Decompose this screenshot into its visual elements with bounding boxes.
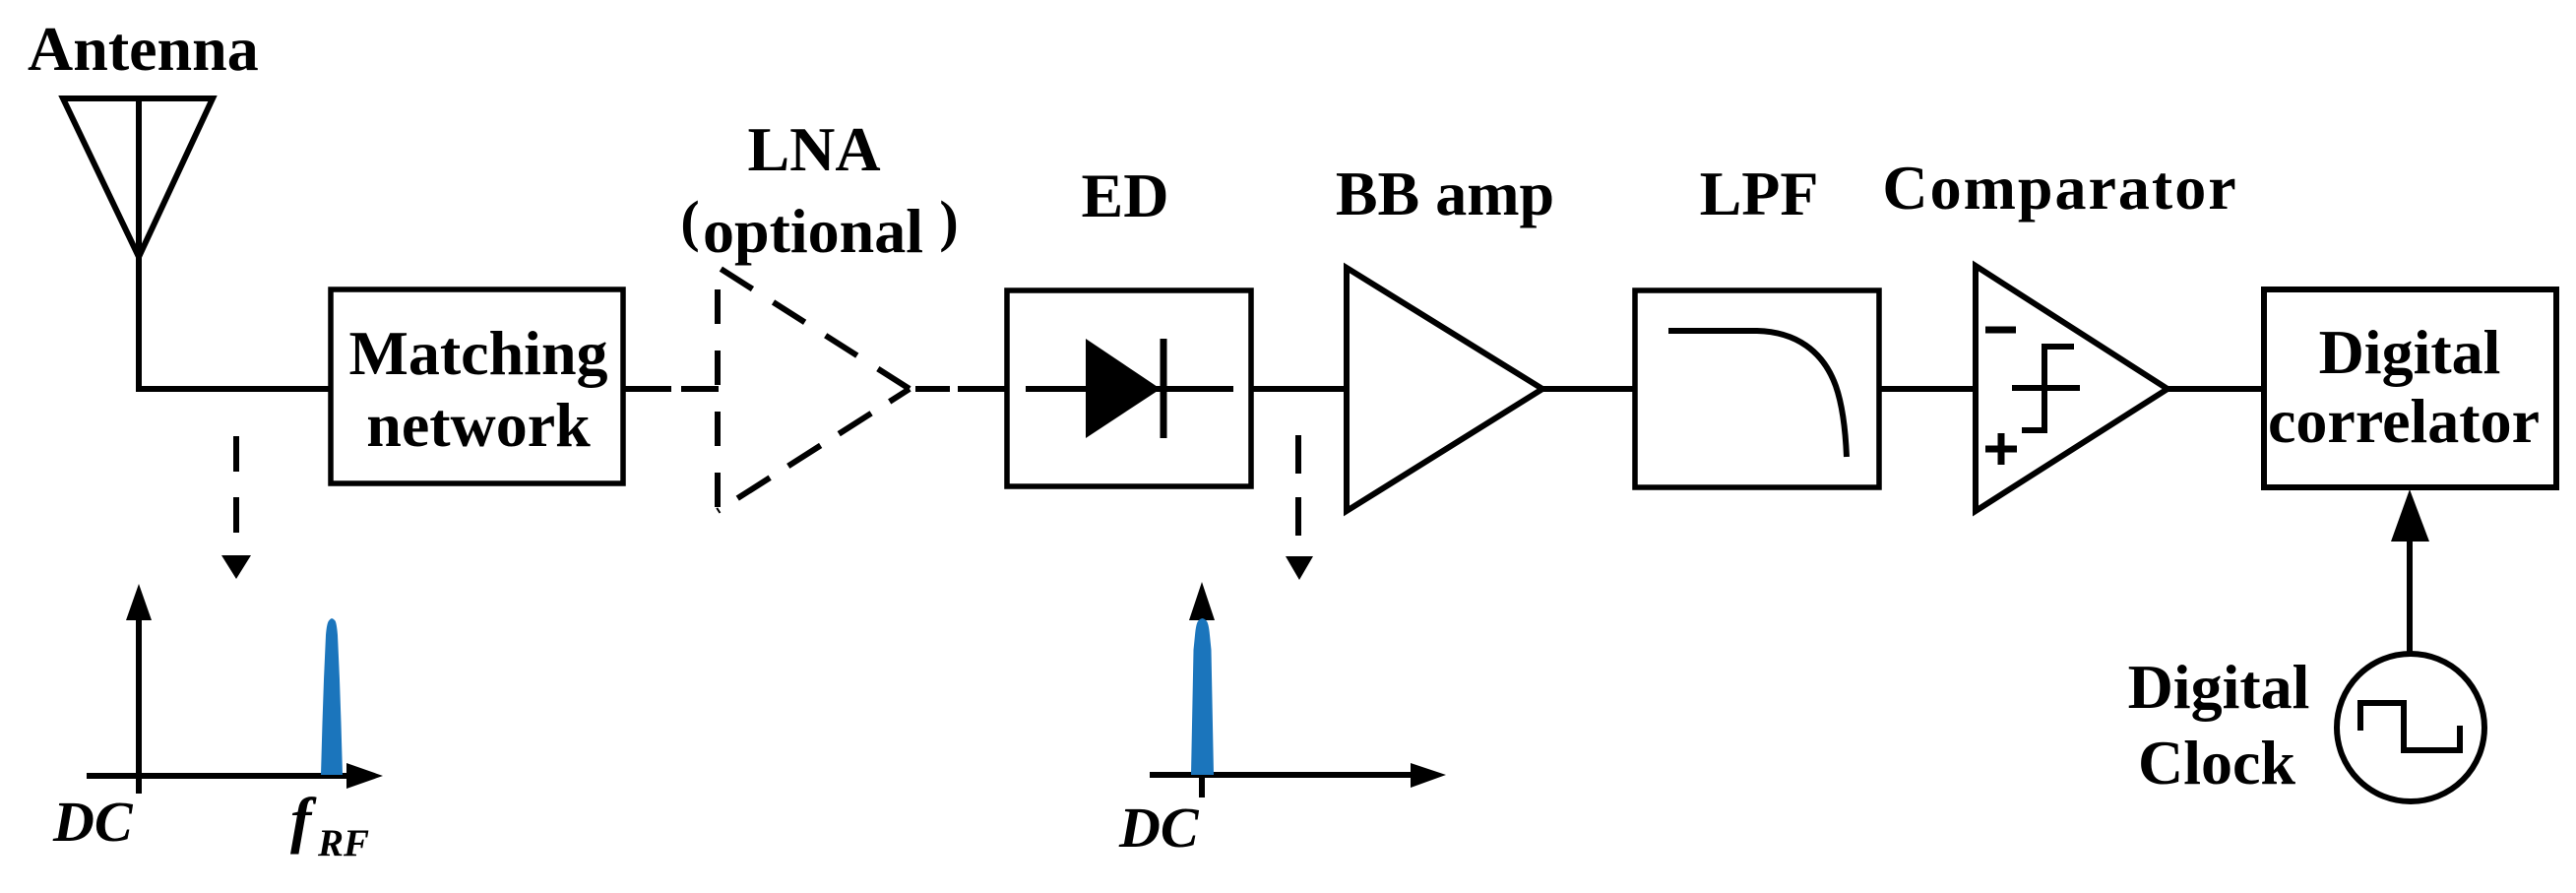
svg-text:): ) — [939, 189, 958, 253]
spectrum 1 horizontal axis arrowhead — [346, 763, 383, 789]
spectrum 2 vertical axis — [1199, 620, 1205, 797]
box ED envelope detector — [1007, 290, 1251, 486]
svg-text:DC: DC — [52, 790, 134, 854]
svg-text:Matching: Matching — [348, 318, 607, 388]
op-amp BB amp — [1347, 268, 1542, 511]
svg-text:Digital: Digital — [2319, 317, 2501, 387]
LPF response curve — [1668, 331, 1847, 457]
svg-text:optional: optional — [703, 196, 923, 266]
svg-text:DC: DC — [1118, 796, 1200, 860]
diode D1 — [1026, 339, 1233, 438]
wire comparator to digital correlator — [2168, 386, 2264, 392]
wire matching to LNA — [623, 386, 719, 392]
svg-text:network: network — [366, 390, 591, 460]
svg-text:LPF: LPF — [1700, 159, 1819, 228]
spectrum 2 DC tone (blue) — [1191, 618, 1214, 775]
comparator minus input — [1985, 327, 2016, 334]
svg-text:(: ( — [680, 189, 699, 253]
svg-text:Comparator: Comparator — [1882, 153, 2237, 223]
wire clock to correlator — [2407, 537, 2413, 654]
antenna ANT1 — [63, 98, 331, 389]
arrowhead clock to correlator — [2391, 489, 2429, 542]
wire LPF to comparator — [1879, 386, 1976, 392]
box Matching network — [331, 289, 623, 483]
svg-text:Digital: Digital — [2128, 652, 2310, 722]
svg-text:LNA: LNA — [747, 114, 880, 184]
svg-text:Clock: Clock — [2138, 728, 2295, 797]
dashed arrow from antenna node down — [233, 436, 239, 539]
comparator plus input — [1985, 433, 2017, 465]
spectrum 2 horizontal axis arrowhead — [1411, 763, 1446, 788]
svg-text:ED: ED — [1082, 160, 1169, 230]
clock square wave — [2360, 703, 2460, 750]
svg-text:correlator: correlator — [2268, 386, 2540, 456]
arrowhead dashed antenna node — [221, 555, 251, 579]
wire BB amp to LPF — [1542, 386, 1635, 392]
op-amp comparator U1 — [1976, 266, 2168, 511]
spectrum 1 RF tone (blue) — [321, 618, 343, 775]
spectrum 1 vertical axis arrowhead — [126, 584, 152, 620]
spectrum 1 vertical axis — [136, 615, 142, 794]
spectrum 2 vertical axis arrowhead — [1189, 582, 1215, 620]
comparator hysteresis symbol — [2012, 347, 2080, 430]
arrowhead dashed ED output — [1286, 556, 1313, 580]
spectrum 1 horizontal axis — [87, 773, 349, 779]
clock source symbol — [2337, 654, 2484, 801]
dashed arrow from ED output down — [1295, 435, 1301, 540]
wire LNA to ED — [915, 386, 1008, 392]
box Digital correlator — [2264, 289, 2556, 487]
svg-text:BB amp: BB amp — [1336, 159, 1554, 228]
svg-text:Antenna: Antenna — [28, 14, 259, 84]
box LPF — [1635, 290, 1879, 487]
op-amp LNA (dashed, optional) — [718, 267, 910, 511]
wire ED to BB amp — [1251, 386, 1347, 392]
svg-text:RF: RF — [317, 822, 369, 864]
spectrum 2 horizontal axis — [1150, 772, 1417, 778]
